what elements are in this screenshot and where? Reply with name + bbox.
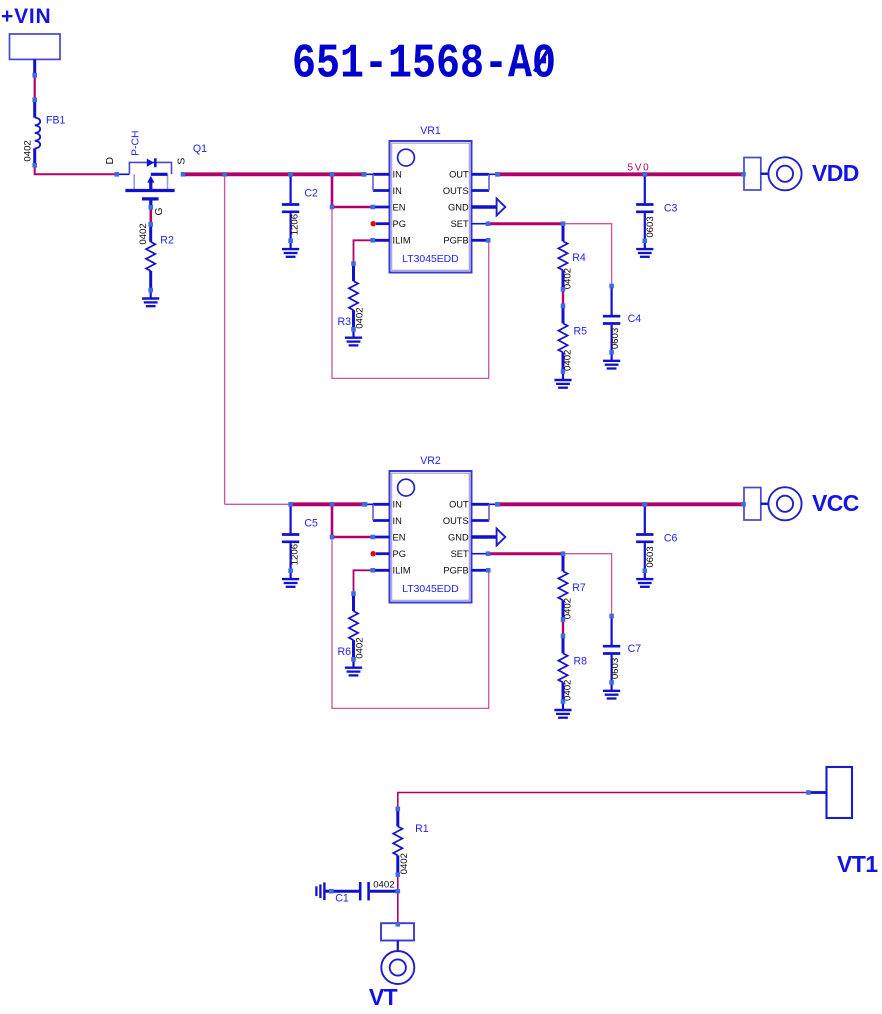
svg-text:R7: R7	[572, 582, 586, 594]
svg-text:C4: C4	[628, 313, 642, 325]
svg-text:OUTS: OUTS	[443, 186, 469, 196]
svg-text:OUTS: OUTS	[443, 516, 469, 526]
svg-text:R1: R1	[415, 823, 429, 835]
svg-text:VDD: VDD	[812, 160, 859, 186]
svg-text:P-CH: P-CH	[130, 130, 141, 155]
svg-text:0402: 0402	[22, 140, 33, 161]
svg-text:EN: EN	[393, 202, 406, 212]
svg-text:0402: 0402	[562, 268, 573, 289]
svg-text:VR2: VR2	[420, 455, 441, 467]
svg-text:LT3045EDD: LT3045EDD	[402, 584, 458, 595]
svg-text:0603: 0603	[610, 328, 621, 349]
svg-text:S: S	[176, 158, 187, 165]
svg-text:LT3045EDD: LT3045EDD	[402, 254, 458, 265]
svg-text:GND: GND	[448, 202, 469, 212]
svg-text:VCC: VCC	[812, 490, 859, 516]
svg-text:C2: C2	[304, 188, 318, 200]
svg-text:1206: 1206	[290, 544, 301, 565]
svg-text:SET: SET	[451, 549, 469, 559]
svg-text:R5: R5	[574, 326, 588, 338]
svg-text:C5: C5	[304, 518, 318, 530]
svg-text:ILIM: ILIM	[393, 236, 411, 246]
svg-text:ILIM: ILIM	[393, 566, 411, 576]
svg-text:0402: 0402	[354, 637, 365, 658]
svg-text:GND: GND	[448, 532, 469, 542]
svg-text:1206: 1206	[290, 214, 301, 235]
svg-text:PG: PG	[393, 219, 406, 229]
svg-text:0402: 0402	[354, 307, 365, 328]
svg-text:C3: C3	[664, 202, 678, 214]
svg-text:0402: 0402	[562, 350, 573, 371]
svg-text:OUT: OUT	[449, 500, 469, 510]
svg-text:PGFB: PGFB	[443, 236, 468, 246]
svg-text:G: G	[154, 207, 165, 215]
svg-text:R4: R4	[572, 252, 586, 264]
svg-text:VT: VT	[369, 984, 398, 1010]
svg-text:0402: 0402	[373, 880, 394, 891]
svg-text:C6: C6	[664, 532, 678, 544]
svg-text:0402: 0402	[399, 853, 410, 874]
svg-text:PGFB: PGFB	[443, 566, 468, 576]
svg-text:C7: C7	[628, 643, 642, 655]
svg-text:PG: PG	[393, 549, 406, 559]
svg-text:0402: 0402	[138, 223, 149, 244]
svg-text:0402: 0402	[562, 680, 573, 701]
svg-text:R8: R8	[574, 656, 588, 668]
svg-text:VT1: VT1	[837, 851, 878, 877]
svg-text:VR1: VR1	[420, 125, 441, 137]
svg-text:IN: IN	[393, 186, 402, 196]
svg-text:D: D	[105, 157, 116, 165]
svg-text:Q1: Q1	[193, 143, 207, 155]
svg-text:IN: IN	[393, 516, 402, 526]
svg-text:0402: 0402	[562, 598, 573, 619]
svg-text:OUT: OUT	[449, 170, 469, 180]
svg-text:0603: 0603	[645, 216, 656, 237]
svg-text:+VIN: +VIN	[1, 5, 51, 28]
svg-text:IN: IN	[393, 500, 402, 510]
svg-text:651-1568-A0: 651-1568-A0	[292, 37, 556, 92]
svg-text:5V0: 5V0	[628, 163, 651, 174]
svg-text:R6: R6	[338, 646, 352, 658]
svg-text:IN: IN	[393, 170, 402, 180]
svg-text:R2: R2	[160, 234, 174, 246]
svg-text:EN: EN	[393, 532, 406, 542]
svg-text:FB1: FB1	[46, 114, 66, 126]
svg-text:0603: 0603	[610, 658, 621, 679]
svg-text:R3: R3	[338, 316, 352, 328]
svg-text:C1: C1	[335, 892, 349, 904]
svg-text:0603: 0603	[645, 546, 656, 567]
svg-text:SET: SET	[451, 219, 469, 229]
